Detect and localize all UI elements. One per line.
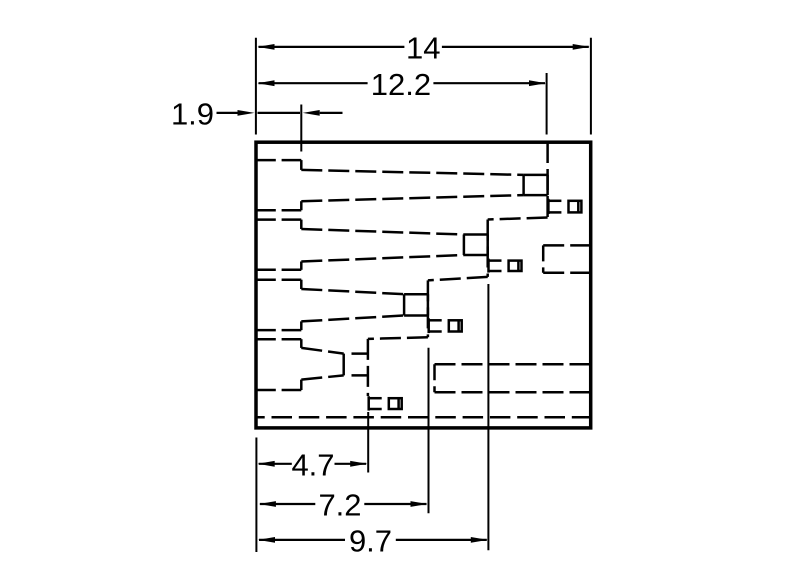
housing base hidden line bbox=[256, 416, 591, 419]
dimension line 14 left segment bbox=[259, 46, 405, 48]
leader line 1.9 right bbox=[320, 112, 343, 114]
pin 2 tip end box bbox=[569, 201, 582, 213]
pin 6 tip end inner line bbox=[457, 320, 460, 331]
pin 4 tip lower line bbox=[489, 270, 502, 273]
extension line 7.2 bbox=[428, 348, 430, 514]
arrowhead 14 right bbox=[573, 44, 590, 50]
pin 3 contact box left edge bbox=[463, 235, 466, 256]
leader line 1.9 left bbox=[217, 112, 239, 114]
pin 3 contact box top edge bbox=[464, 233, 488, 236]
pin 6 tip lower line bbox=[429, 330, 442, 333]
dimension line 12.2 right segment bbox=[433, 82, 545, 84]
pin 8 jog bbox=[300, 380, 303, 390]
lower latch recess left edge bbox=[433, 364, 436, 392]
pin 8 tip upper line bbox=[369, 397, 382, 400]
svg-text:1.9: 1.9 bbox=[171, 97, 214, 132]
pin 5 contact box bottom edge bbox=[404, 314, 428, 317]
lower latch recess top bbox=[435, 363, 590, 366]
pin 7 contact box bottom edge bbox=[344, 374, 368, 377]
pin 5 contact box left edge bbox=[403, 294, 406, 315]
pin 3 contact box right edge bbox=[486, 235, 489, 256]
pin 7 jog bbox=[300, 339, 303, 348]
upper latch recess top bbox=[543, 244, 589, 247]
arrowhead 9.7 left bbox=[258, 537, 275, 543]
pin 5 solder stub bbox=[256, 278, 301, 281]
pin 6 tip end box bbox=[449, 320, 462, 331]
cavity vertical at 7.2 bbox=[427, 280, 430, 337]
pin 2 tip upper line bbox=[549, 200, 562, 203]
pin 3 solder stub bbox=[256, 218, 301, 221]
cavity vertical at 4.7 bbox=[367, 339, 370, 396]
dimension line 7.2 left segment bbox=[260, 503, 315, 505]
pin 8 lead line bbox=[301, 375, 343, 379]
extension line 1.9 bbox=[300, 105, 302, 152]
pin 2 tip left edge bbox=[547, 199, 550, 214]
svg-text:9.7: 9.7 bbox=[349, 524, 392, 559]
svg-text:4.7: 4.7 bbox=[291, 448, 334, 483]
pin 4 solder stub bbox=[256, 269, 301, 272]
pin 6 tip left edge bbox=[427, 318, 430, 333]
pin 1 contact box left edge bbox=[522, 175, 525, 195]
upper latch recess bottom bbox=[543, 272, 589, 275]
dimension line 4.7 right segment bbox=[335, 463, 367, 465]
pin 8 solder stub bbox=[256, 389, 301, 392]
pin 4 jog bbox=[300, 262, 303, 270]
pin 4 tip upper line bbox=[489, 259, 502, 262]
cavity vertical at 12.2 bbox=[546, 142, 549, 218]
pin 2 jog bbox=[300, 201, 303, 210]
pin 5 jog bbox=[300, 280, 303, 289]
arrowhead 14 left bbox=[258, 44, 275, 50]
pin 1 solder stub bbox=[256, 159, 301, 162]
pin 4 lead line bbox=[301, 255, 464, 262]
dimension line 14 right segment bbox=[442, 46, 589, 48]
arrowhead 4.7 left bbox=[258, 461, 275, 467]
cavity vertical at 9.7 bbox=[486, 220, 489, 277]
arrowhead 9.7 right bbox=[471, 537, 488, 543]
pin 2 tip end inner line bbox=[577, 201, 580, 213]
dimension line 1.9 middle bbox=[258, 112, 301, 114]
pin 6 lead line bbox=[301, 316, 404, 322]
svg-text:14: 14 bbox=[406, 31, 440, 66]
pin 3 contact box bottom edge bbox=[464, 254, 488, 257]
arrowhead 7.2 right bbox=[411, 501, 428, 507]
pin 4 tip left edge bbox=[487, 259, 490, 273]
pin 5 contact box top edge bbox=[404, 293, 428, 296]
pin 7 contact box left edge bbox=[342, 354, 345, 376]
pin 3 lead line bbox=[301, 229, 464, 235]
outer housing outline bbox=[256, 142, 591, 428]
svg-text:7.2: 7.2 bbox=[318, 488, 361, 523]
pin 4 tip end inner line bbox=[517, 261, 520, 271]
dimension line 9.7 left segment bbox=[259, 539, 345, 541]
pin 5 lead line bbox=[301, 289, 404, 294]
pin 6 tip upper line bbox=[429, 319, 442, 322]
upper latch recess left edge bbox=[542, 245, 545, 272]
extension line 4.7 bbox=[367, 412, 369, 473]
extension line 9.7 bbox=[487, 284, 489, 550]
dimension line 12.2 left segment bbox=[259, 82, 368, 84]
arrowhead 12.2 right bbox=[529, 80, 546, 86]
pin 1 lead line bbox=[301, 170, 523, 175]
extension line left (top) bbox=[255, 38, 257, 135]
cavity step 2 bbox=[428, 277, 488, 281]
dimension line 4.7 left segment bbox=[259, 463, 292, 465]
pin 7 contact box top edge bbox=[344, 352, 368, 355]
pin 3 jog bbox=[300, 220, 303, 229]
svg-text:12.2: 12.2 bbox=[371, 67, 431, 102]
pin 4 tip end box bbox=[509, 261, 522, 271]
extension line right (top) bbox=[590, 38, 592, 135]
pin 1 contact box right edge bbox=[546, 175, 549, 195]
pin 7 solder stub bbox=[256, 338, 301, 341]
cavity step 3 bbox=[368, 337, 428, 339]
arrowhead 4.7 right bbox=[350, 461, 367, 467]
pin 1 contact box top edge bbox=[524, 174, 548, 177]
arrowhead 1.9 left bbox=[238, 110, 255, 116]
pin 7 lead line bbox=[301, 348, 343, 354]
arrowhead 1.9 right bbox=[303, 110, 320, 116]
pin 8 tip end box bbox=[389, 398, 402, 409]
pin 8 tip lower line bbox=[369, 408, 382, 411]
lower latch recess bottom bbox=[435, 391, 590, 394]
extension line left (bottom) bbox=[255, 438, 257, 553]
pin 2 tip lower line bbox=[549, 211, 562, 214]
dimension line 9.7 right segment bbox=[396, 539, 487, 541]
pin 1 jog bbox=[300, 160, 303, 170]
pin 5 contact box right edge bbox=[427, 294, 430, 315]
dimension line 7.2 right segment bbox=[364, 503, 426, 505]
cavity step 1 bbox=[488, 218, 548, 220]
arrowhead 7.2 left bbox=[259, 501, 276, 507]
pin 1 contact box bottom edge bbox=[524, 194, 548, 197]
pin 8 tip end inner line bbox=[397, 398, 400, 409]
pin 8 tip left edge bbox=[367, 396, 370, 410]
pin 2 lead line bbox=[301, 195, 523, 201]
arrowhead 12.2 left bbox=[258, 80, 275, 86]
pin 2 solder stub bbox=[256, 209, 301, 212]
pin 6 jog bbox=[300, 321, 303, 330]
extension line 12.2 bbox=[546, 73, 548, 135]
pin 6 solder stub bbox=[256, 329, 301, 332]
